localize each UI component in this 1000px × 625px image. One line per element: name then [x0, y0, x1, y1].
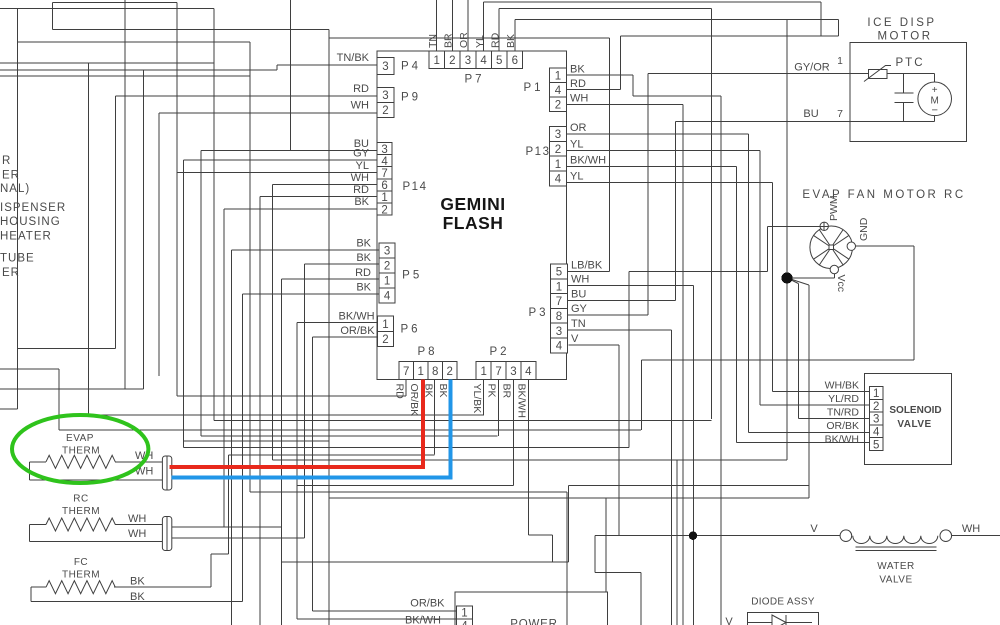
wire GND H y=246.2 [855, 245, 914, 247]
svg-text:1: 1 [556, 281, 562, 293]
connector P7 [429, 51, 523, 68]
svg-text:TN: TN [571, 318, 586, 330]
svg-text:BK: BK [505, 34, 517, 48]
wire RD P8.7 V [405, 380, 407, 396]
wire H y=8.4 [499, 7, 711, 9]
wire BK P5.4 H [243, 293, 379, 295]
wire BK H y=454.8 [228, 454, 434, 456]
svg-text:YL: YL [474, 35, 486, 48]
wire V x=290.5 [290, 0, 292, 151]
connector P3 [550, 264, 567, 353]
fan terminal GND [847, 242, 855, 250]
wire V x=17.5 left drop [17, 8, 19, 409]
svg-text:3: 3 [556, 326, 562, 338]
svg-text:BK: BK [130, 576, 145, 588]
wire BK/WH P13.1 H [566, 165, 736, 167]
svg-text:P 2: P 2 [489, 346, 506, 358]
wire H y=436 BU-PK [201, 435, 498, 437]
wire BK V x=224 [223, 209, 225, 527]
wire V x=242.7 to FC [242, 294, 244, 602]
svg-text:7: 7 [495, 366, 501, 378]
wire H y=485.6 right [569, 485, 809, 487]
wire H y=534.8 [528, 534, 552, 536]
label GEMINI FLASH [440, 194, 505, 233]
svg-text:GY: GY [571, 303, 588, 315]
svg-text:OR/BK: OR/BK [826, 420, 859, 432]
svg-text:MOTOR: MOTOR [877, 31, 932, 43]
wire WH V x=272.3 [271, 185, 273, 460]
svg-text:PK: PK [486, 384, 498, 398]
wire V x=748.3 [747, 134, 749, 433]
GEMINI FLASH control board block U1 [377, 51, 566, 380]
svg-text:+: + [932, 85, 938, 96]
wire H y=369 left exit [0, 368, 59, 370]
wire RD V x=620.6 up [620, 36, 622, 90]
wire V x=143.5 [143, 70, 145, 389]
wire V x=567 bottom [566, 492, 568, 625]
wire YL/BK P2.1 V [483, 380, 485, 415]
connector P4 [377, 58, 394, 75]
svg-text:1: 1 [837, 56, 843, 67]
wire H y=38 [329, 37, 610, 39]
junction node fan Vcc [781, 272, 792, 283]
svg-text:2: 2 [447, 366, 453, 378]
wire YL P7.4 riser [483, 2, 485, 51]
wire H to solenoid pin4 [748, 431, 869, 433]
svg-text:ICE DISP: ICE DISP [867, 17, 936, 29]
blue probe wire P8.2 to EVAP THERM [172, 380, 451, 478]
wire RD P14.1 H [260, 196, 377, 198]
diode assy box [747, 613, 818, 625]
power supply box [455, 592, 608, 625]
svg-text:BK/WH: BK/WH [825, 433, 859, 445]
wire YL P13.2 H [566, 150, 759, 152]
svg-text:1: 1 [461, 608, 467, 620]
wire H y=554 [211, 553, 228, 555]
svg-text:V: V [571, 333, 579, 345]
svg-text:2: 2 [555, 144, 561, 156]
svg-text:4: 4 [480, 55, 487, 67]
wire H y=492.2 [250, 491, 567, 493]
wire V x=677.1 [676, 460, 678, 625]
wire H y=63 [0, 62, 214, 64]
svg-text:4: 4 [384, 291, 391, 303]
wire RD P1.4 H [566, 89, 620, 91]
svg-text:GY/OR: GY/OR [794, 62, 830, 74]
svg-text:BK: BK [354, 196, 369, 208]
svg-text:POWER: POWER [510, 619, 557, 625]
svg-text:FC: FC [74, 557, 88, 568]
svg-text:WH: WH [570, 93, 588, 105]
svg-text:5: 5 [496, 55, 502, 67]
wire BK P7.6 riser [514, 20, 516, 51]
wire OR P7.3 riser [467, 0, 469, 51]
svg-text:YL: YL [570, 139, 583, 151]
wire H y=414.8 YL/BK [89, 414, 484, 416]
wire BK P14.2 H [224, 208, 377, 210]
wire RD P9.3 H [116, 95, 378, 97]
svg-text:YL/BK: YL/BK [471, 384, 483, 414]
svg-text:WH: WH [128, 513, 146, 525]
wire H y=442.5 solenoid pin5 [736, 442, 869, 444]
wire GY V x=183.6 [183, 160, 185, 448]
svg-text:OR: OR [570, 122, 587, 134]
svg-text:WH: WH [962, 523, 980, 535]
wire H y=420.3 [214, 419, 712, 421]
svg-text:BK: BK [356, 238, 371, 250]
svg-text:4: 4 [525, 366, 532, 378]
wire V x=609.4 up [608, 38, 610, 271]
svg-text:P 4: P 4 [401, 61, 419, 73]
wire WH P1.2 H [566, 104, 683, 106]
connector header RC therm [162, 517, 171, 551]
wire V x=671.5 [671, 330, 673, 625]
wire long V x=214 [213, 8, 215, 420]
svg-text:RD: RD [355, 267, 371, 279]
svg-text:P 6: P 6 [400, 324, 417, 336]
thermistor RT2 RC THERM [30, 518, 163, 542]
svg-text:4: 4 [555, 174, 562, 186]
wire H y=409.2 left exit [0, 408, 18, 410]
wire RD P5.1 H [282, 278, 380, 280]
svg-text:BK/WH: BK/WH [516, 384, 528, 418]
wire BU H y=121.6 [675, 121, 934, 123]
ICE DISP MOTOR box [850, 42, 966, 141]
svg-text:OR/BK: OR/BK [410, 598, 445, 610]
wire TN/BK into P4 pin3 [277, 64, 377, 66]
svg-text:BR: BR [443, 33, 455, 48]
svg-text:BU: BU [571, 289, 586, 301]
svg-text:3: 3 [384, 246, 390, 258]
fan motor B1 evap fan [810, 226, 853, 269]
svg-text:RD: RD [570, 78, 586, 90]
svg-text:2: 2 [449, 55, 455, 67]
wire junction diagonal 1 [787, 278, 798, 284]
wire V x=606 [605, 498, 607, 592]
wire RD P7.5 riser [498, 8, 500, 51]
wire BK/WH P6.1 H [297, 322, 378, 324]
svg-text:−: − [931, 105, 937, 117]
svg-text:1: 1 [480, 366, 486, 378]
wire H to solenoid pin2 [760, 404, 870, 406]
svg-text:ER: ER [2, 170, 20, 182]
wire WH P3.1 H [567, 285, 693, 287]
wire WH P9.2 H [159, 112, 377, 114]
svg-text:5: 5 [873, 439, 879, 451]
svg-text:P 9: P 9 [401, 92, 418, 104]
svg-text:OR/BK: OR/BK [340, 325, 375, 337]
wire V x=281.5 [281, 279, 283, 625]
svg-text:3: 3 [465, 55, 471, 67]
wire BK H y=96.1 [633, 95, 721, 97]
svg-text:1: 1 [417, 366, 423, 378]
wire V x=675.4 to ICE [674, 122, 676, 301]
svg-text:P14: P14 [403, 181, 428, 193]
svg-text:WH/BK: WH/BK [825, 380, 859, 392]
motor M1 ice dispenser [918, 74, 952, 122]
svg-text:4: 4 [555, 85, 562, 97]
svg-text:DIODE ASSY: DIODE ASSY [751, 597, 815, 608]
wire V x=231.3 [230, 250, 232, 625]
svg-text:BK/WH: BK/WH [339, 311, 375, 323]
connector P6 [377, 316, 393, 346]
svg-text:GY: GY [353, 148, 370, 160]
junction node water valve tap [689, 532, 697, 540]
svg-text:4: 4 [461, 621, 468, 625]
wire V x=304.7 to RC [304, 264, 306, 538]
svg-text:1: 1 [434, 55, 440, 67]
wire OR P13.3 H [566, 133, 748, 135]
wire TN P7.1 riser [436, 0, 438, 51]
svg-text:TN/RD: TN/RD [827, 406, 859, 418]
svg-text:4: 4 [873, 427, 880, 439]
svg-text:RD: RD [353, 184, 369, 196]
svg-text:2: 2 [382, 334, 388, 346]
wire PWM V x=767.3 [766, 226, 768, 271]
wire TN/BK net top-left H y=2.5 [53, 2, 178, 4]
connector P13 [550, 127, 567, 186]
svg-text:HOUSING: HOUSING [0, 216, 61, 228]
SOLENOID VALVE box [864, 374, 951, 465]
svg-text:3: 3 [873, 414, 879, 426]
svg-text:R: R [2, 155, 11, 167]
svg-text:LB/BK: LB/BK [571, 260, 603, 272]
wire H y=76.1 [0, 75, 250, 77]
wire V x=619.1 [618, 345, 620, 536]
wire H y=8.4 left [0, 7, 214, 9]
wire H y=459.8 [272, 459, 787, 461]
wire H y=348.7 [18, 348, 116, 350]
wire H y=619.2 to aux pin4 [297, 618, 457, 620]
connector header EVAP therm [162, 456, 171, 490]
wire V x=228.4 [227, 455, 229, 554]
wire V x=595.1 [594, 536, 596, 573]
wire BR H y=485.6 left [297, 485, 514, 487]
svg-text:Vcc: Vcc [835, 275, 847, 293]
wire GY P3.8 H [567, 314, 648, 316]
svg-text:YL: YL [570, 171, 583, 183]
svg-text:TN/BK: TN/BK [337, 52, 370, 64]
svg-text:8: 8 [556, 311, 562, 323]
svg-text:7: 7 [837, 108, 843, 120]
svg-text:GEMINI: GEMINI [440, 194, 505, 214]
svg-text:YL/RD: YL/RD [828, 393, 859, 405]
svg-text:RC: RC [73, 494, 88, 505]
wire H y=2.2 [484, 1, 822, 3]
wire BU V x=200.9 [200, 151, 202, 436]
wire junction diagonal 2 [787, 278, 809, 285]
svg-text:THERM: THERM [62, 570, 100, 581]
wire WH P14.6 H [272, 184, 377, 186]
wire WH V x=159.2 [158, 113, 160, 376]
wire V x=296.8 [296, 323, 298, 620]
svg-text:BU: BU [803, 108, 818, 120]
svg-text:PWM: PWM [828, 195, 840, 221]
svg-text:3: 3 [555, 129, 561, 141]
red probe wire P8.1 to EVAP THERM [170, 380, 423, 467]
svg-text:BK: BK [437, 384, 449, 398]
wire long H y=447.4 [184, 446, 629, 448]
wire V x=328.9 [328, 29, 330, 625]
wire RC lower H y=538.2 [171, 537, 304, 539]
svg-text:WATER: WATER [877, 561, 915, 572]
solenoid valve pin column [870, 387, 884, 452]
wire GND V x=914.2 [913, 246, 915, 360]
wire H y=35.8 [621, 35, 839, 37]
svg-text:SOLENOID: SOLENOID [889, 405, 941, 416]
wire WH H right exit [952, 535, 1000, 537]
wire V x=125 [124, 0, 126, 389]
svg-text:1: 1 [382, 319, 388, 331]
svg-text:7: 7 [403, 366, 409, 378]
wire BR P7.2 riser [451, 0, 453, 51]
wire H y=29.4 [53, 28, 329, 30]
svg-text:ISPENSER: ISPENSER [0, 202, 66, 214]
svg-text:TUBE: TUBE [0, 253, 35, 265]
svg-text:ER: ER [2, 267, 20, 279]
wire H to solenoid pin1 [773, 391, 870, 393]
svg-text:V: V [810, 523, 818, 535]
svg-text:P13: P13 [526, 146, 551, 158]
wire V x=821 [820, 2, 822, 36]
wire BK P1.1 H [566, 74, 633, 76]
wire long V x=720.9 [720, 96, 722, 625]
svg-text:2: 2 [382, 105, 388, 117]
svg-text:BK: BK [356, 282, 371, 294]
wire TN P3.3 H [567, 329, 671, 331]
connector P8 [399, 362, 457, 380]
svg-text:P 1: P 1 [523, 82, 540, 94]
svg-text:WH: WH [128, 528, 146, 540]
svg-text:7: 7 [556, 296, 562, 308]
svg-text:OR: OR [458, 32, 470, 48]
svg-text:NAL): NAL) [0, 183, 30, 195]
svg-text:BR: BR [501, 384, 513, 399]
wire BK P5.3 H [231, 249, 379, 251]
svg-text:FLASH: FLASH [443, 213, 504, 233]
svg-text:THERM: THERM [62, 446, 100, 457]
svg-text:TN: TN [427, 34, 439, 48]
wire V x=648 to ICE [647, 74, 649, 315]
wire BK/WH P2.4 V [527, 380, 529, 535]
water valve solenoid L1 [840, 530, 951, 551]
wire RD V x=260.1 [259, 197, 261, 625]
svg-text:3: 3 [382, 61, 388, 73]
svg-text:8: 8 [432, 366, 438, 378]
wire TN/BK jog [276, 65, 278, 70]
wire GY/OR H y=73.6 [648, 73, 935, 75]
wire V x=838.6 [838, 20, 840, 36]
wire YL P14.7 H [177, 171, 377, 173]
wire V x=683 [682, 105, 684, 625]
wire GND H y=360.2 [642, 359, 915, 361]
wire H y=535.7 to water valve [595, 535, 840, 537]
svg-text:6: 6 [512, 55, 518, 67]
svg-text:5: 5 [556, 267, 562, 279]
svg-text:2: 2 [555, 100, 561, 112]
wire V x=211.2 [210, 554, 212, 587]
svg-text:2: 2 [384, 261, 390, 273]
wire long V x=249.8 [249, 42, 251, 492]
svg-text:4: 4 [556, 341, 563, 353]
svg-text:1: 1 [873, 388, 879, 400]
svg-text:3: 3 [381, 144, 387, 156]
svg-text:YL: YL [356, 160, 369, 172]
wire FC upper H y=587.2 link [114, 586, 211, 588]
svg-text:4: 4 [381, 156, 388, 168]
PTC thermistor [864, 66, 891, 82]
svg-text:1: 1 [384, 276, 390, 288]
wire Vcc stub [833, 274, 835, 278]
wire BK P8.8 V [434, 380, 436, 455]
svg-text:BK: BK [356, 252, 371, 264]
wire RD P8.7 H y=395.8 [177, 395, 406, 397]
wire V x=312.6 [312, 337, 314, 611]
wire BU P14.3 H [201, 150, 377, 152]
fan terminal PWM [820, 222, 828, 230]
svg-text:2: 2 [381, 204, 387, 216]
wire V x=568.6 [568, 486, 570, 562]
svg-text:BK/WH: BK/WH [570, 155, 606, 167]
wire V P3.4 H [568, 344, 619, 346]
svg-text:6: 6 [381, 180, 387, 192]
wire long V x=787 [786, 20, 788, 460]
wire V x=177 [176, 3, 178, 396]
svg-text:1: 1 [555, 70, 561, 82]
wire PWM H y=271.4 [629, 270, 768, 272]
svg-text:HEATER: HEATER [0, 231, 52, 243]
svg-text:BK: BK [130, 591, 145, 603]
svg-text:3: 3 [510, 366, 516, 378]
wire V x=808.9 [808, 285, 810, 498]
wire H y=42 [18, 41, 250, 43]
wire V x=552.3 [551, 535, 553, 562]
wire Vcc H from junction [787, 277, 834, 279]
svg-text:OR/BK: OR/BK [408, 384, 420, 417]
wire V x=58.8 [58, 369, 60, 430]
wire PK P2.7 V [498, 380, 500, 436]
connector P14 [377, 143, 392, 217]
wire LB/BK P3.5 H [567, 270, 609, 272]
svg-text:3: 3 [382, 90, 388, 102]
svg-text:WH: WH [351, 100, 369, 112]
wire V x=628.8 [628, 271, 630, 447]
wire V x=88.6 [88, 63, 90, 415]
svg-text:EVAP: EVAP [66, 433, 94, 444]
svg-text:P 7: P 7 [464, 74, 481, 86]
svg-text:WH: WH [571, 274, 589, 286]
svg-text:GND: GND [858, 217, 870, 241]
wire GND V x=641.6 [641, 360, 643, 430]
wire BR P2.3 V [513, 380, 515, 486]
thermistor RT1 EVAP THERM [30, 455, 163, 480]
svg-text:V: V [725, 616, 733, 625]
svg-text:WH: WH [351, 172, 369, 184]
wire H y=572.5 [595, 572, 641, 574]
wire V x=640.9 bottom [640, 573, 642, 625]
wire H y=497.9 [329, 497, 809, 499]
wire long V x=711.4 [710, 8, 712, 418]
wire PWM H [767, 225, 820, 227]
svg-text:P 8: P 8 [417, 346, 434, 358]
wire V x=52.5 [52, 3, 54, 30]
connector P9 [377, 88, 394, 118]
wire OR/BK P6.2 H [313, 336, 378, 338]
wire V x=759.8 [759, 151, 761, 406]
wire V x=798.3 [797, 284, 799, 419]
wire long H y=561.8 [282, 561, 569, 563]
wire H y=441.2 [184, 440, 329, 442]
